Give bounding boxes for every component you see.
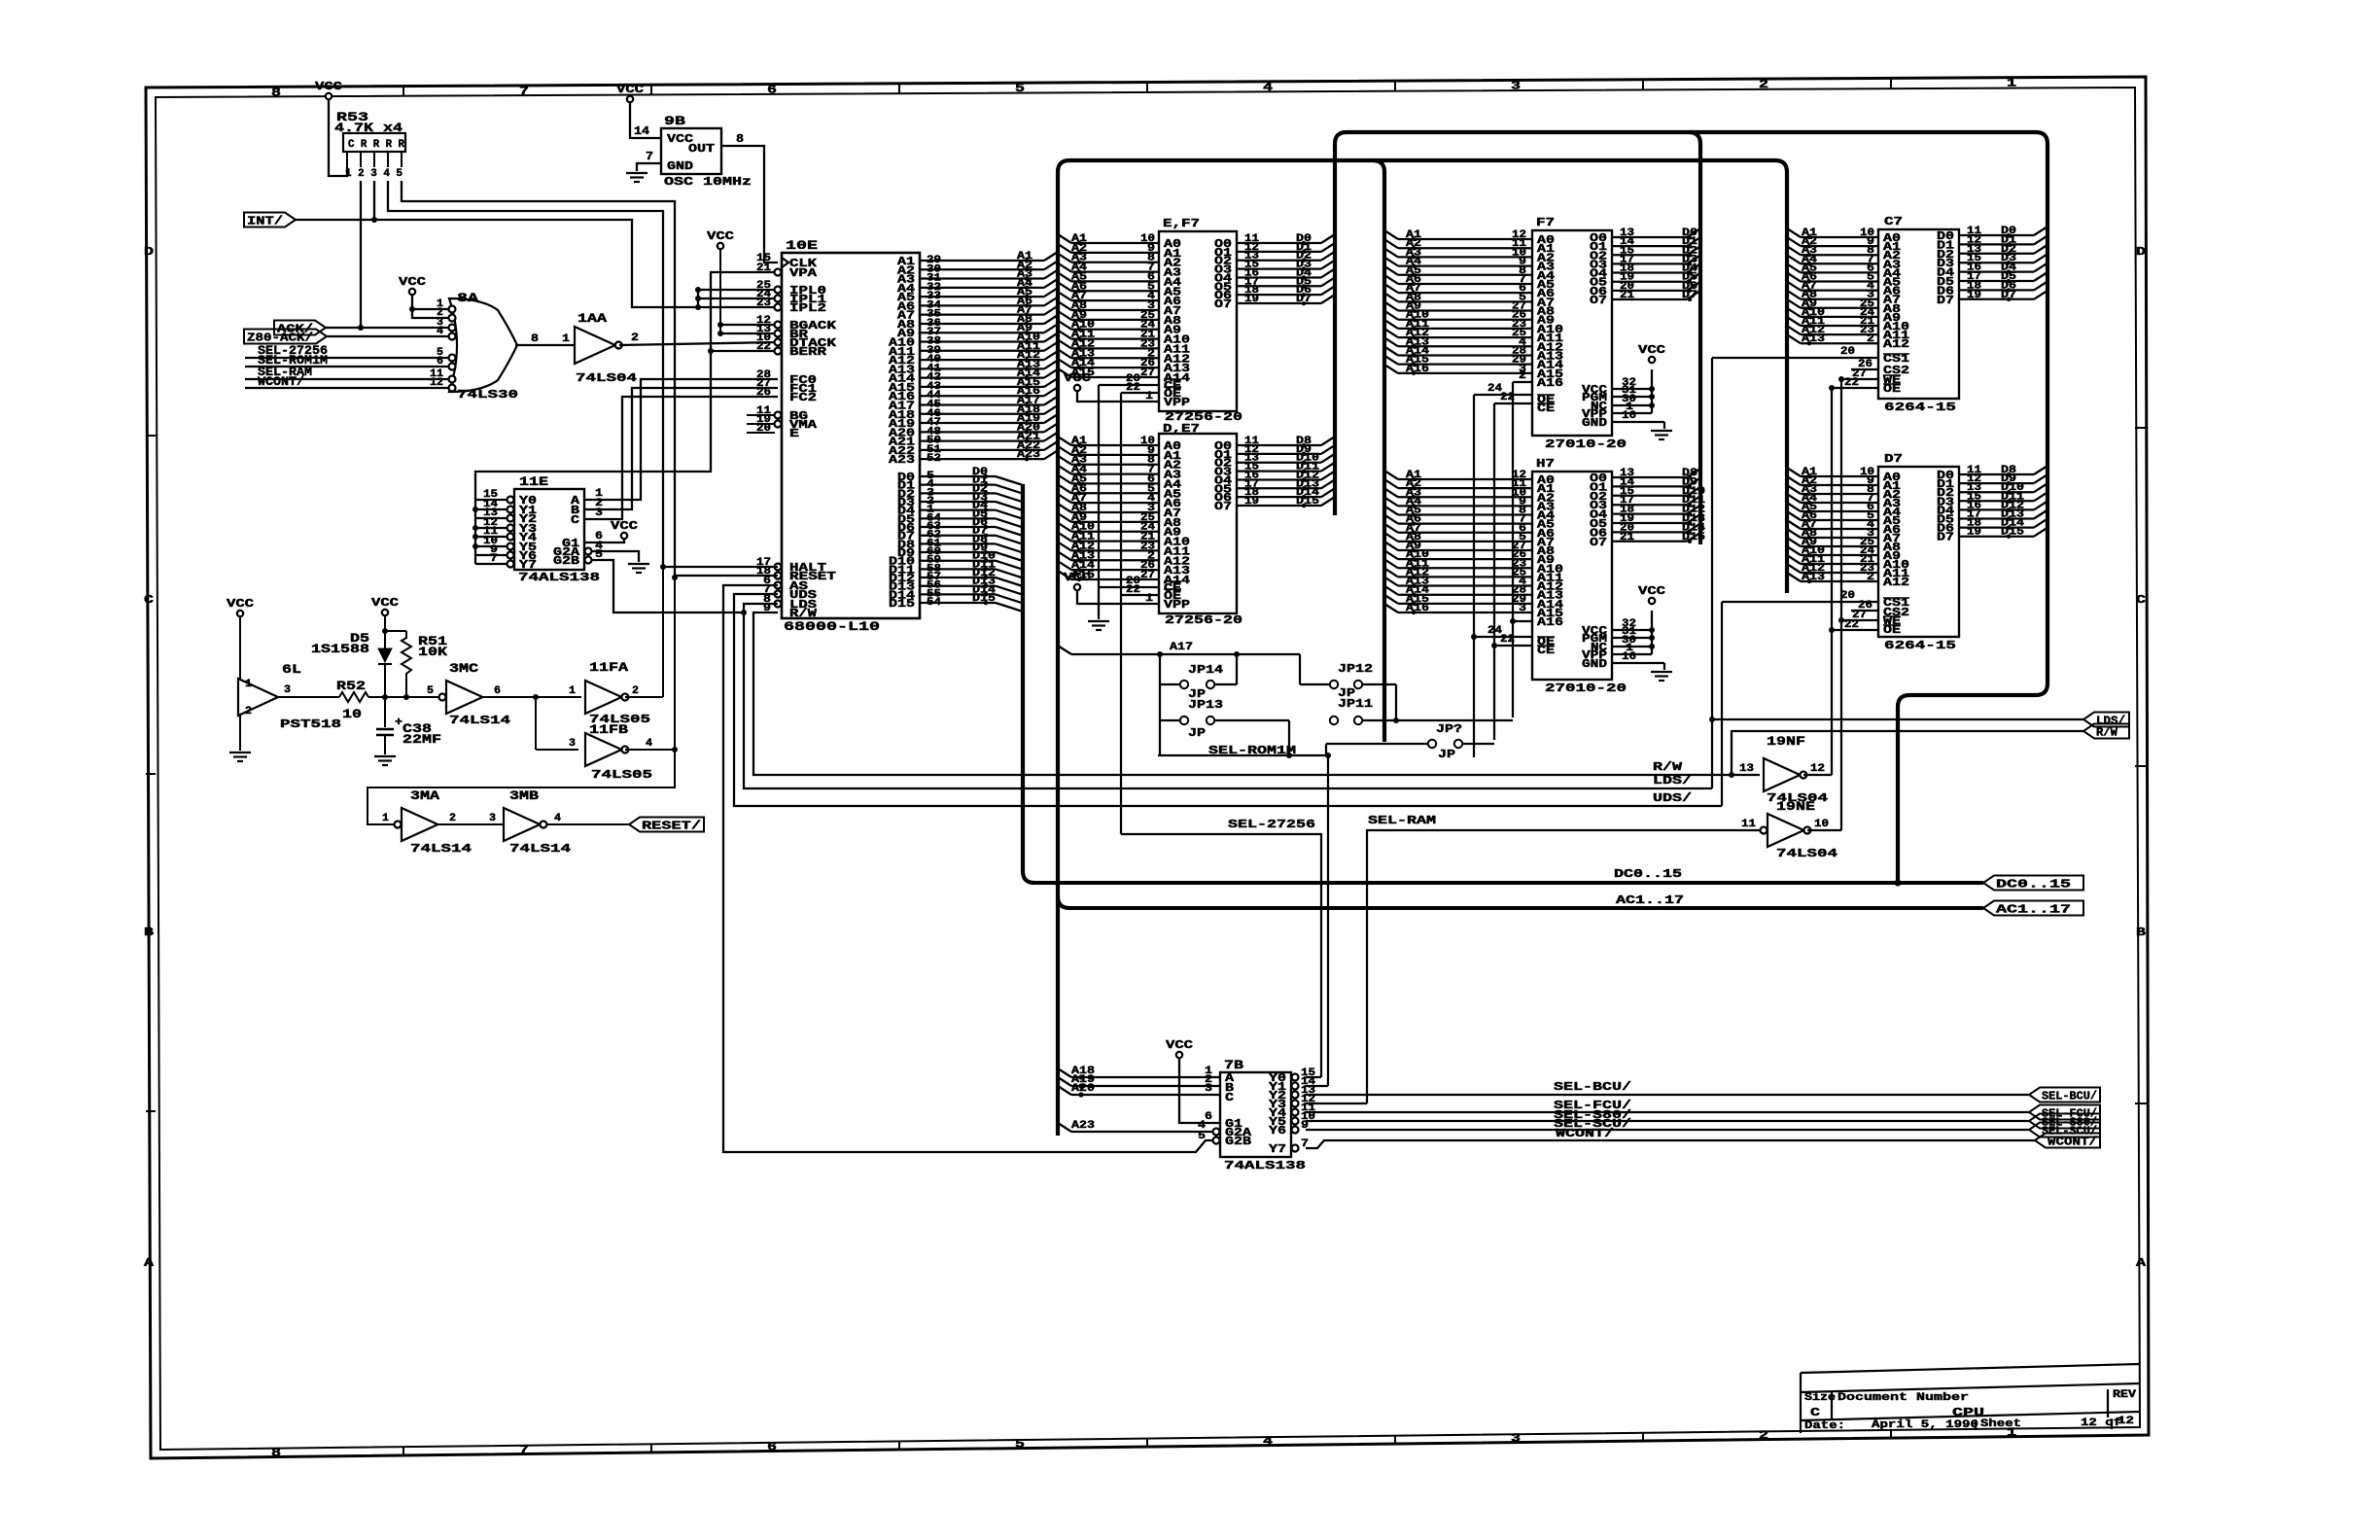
svg-text:12: 12 (1810, 763, 1825, 775)
wire 8A out to 1AA in (515, 344, 575, 346)
data bus vertical column1 (1335, 132, 1347, 515)
svg-text:1AA: 1AA (577, 311, 607, 326)
net flag R/W right (1732, 730, 2083, 732)
address bus vertical column2 (1373, 160, 1384, 742)
CE ground rail for 27256 pair (1098, 385, 1100, 619)
OE rail to SEL-27256 line (1120, 393, 1122, 834)
svg-text:A16: A16 (1406, 603, 1429, 614)
svg-text:C: C (1810, 1406, 1820, 1419)
ground at 6L (229, 752, 251, 753)
wire 3MA to 3MB (437, 823, 504, 825)
ground below D,E7 (1088, 620, 1109, 622)
svg-text:8: 8 (736, 132, 744, 146)
H7 power rail (1612, 629, 1652, 631)
C7 CS2 stub (1851, 368, 1878, 370)
wire HALT to 11FA output (663, 566, 778, 568)
svg-text:CPU: CPU (1952, 1406, 1984, 1419)
svg-text:WCONT/: WCONT/ (1556, 1127, 1614, 1140)
data bus top horizontal (1347, 130, 2036, 134)
svg-text:JP14: JP14 (1188, 663, 1223, 677)
svg-text:9B: 9B (664, 114, 685, 128)
wire VCC to osc pin 14 (630, 102, 661, 138)
svg-text:LDS/: LDS/ (1653, 774, 1692, 787)
data bus vertical RAM column (1898, 132, 2047, 883)
svg-text:R/W: R/W (789, 607, 818, 620)
D7 CS1 wire from UDS (1722, 601, 1878, 603)
wire D,E7 OE (1121, 594, 1159, 596)
svg-text:GND: GND (1582, 416, 1607, 430)
svg-text:74LS30: 74LS30 (457, 388, 518, 402)
svg-text:8: 8 (531, 333, 539, 345)
net flag RESET/ (629, 818, 704, 832)
7B Y6 to SEL-SCU/ flag (1306, 1129, 2029, 1131)
svg-text:1 2 3 4 5: 1 2 3 4 5 (345, 168, 402, 180)
wire VCC to D,E7 VPP (1077, 590, 1159, 604)
svg-text:74LS14: 74LS14 (509, 842, 571, 856)
wire R53 pin4 pullup to HALT (388, 181, 663, 567)
svg-text:VCC: VCC (707, 229, 734, 243)
svg-text:JP11: JP11 (1338, 697, 1373, 711)
svg-text:5: 5 (427, 685, 434, 697)
svg-text:2: 2 (1867, 572, 1874, 583)
svg-text:SEL-BCU/: SEL-BCU/ (2042, 1090, 2097, 1103)
wire R53 pin5 pullup to RESET (402, 181, 675, 577)
wire R/W down right (753, 612, 1760, 775)
bus flag AC1..17 (1983, 901, 2083, 916)
wire SEL-RAM line (1367, 830, 1764, 1103)
svg-text:A23: A23 (1017, 449, 1040, 461)
svg-text:2: 2 (631, 332, 639, 344)
svg-text:19: 19 (1244, 496, 1259, 507)
svg-text:10: 10 (342, 707, 362, 721)
svg-text:A: A (144, 1256, 155, 1270)
svg-text:23: 23 (756, 297, 771, 309)
svg-text:Size: Size (1804, 1392, 1836, 1404)
svg-text:19: 19 (1967, 527, 1981, 539)
svg-text:14: 14 (634, 124, 649, 138)
svg-text:VPP: VPP (1164, 598, 1190, 612)
svg-text:A16: A16 (1406, 364, 1429, 375)
svg-text:6264-15: 6264-15 (1884, 401, 1956, 414)
ground at F7 (1651, 430, 1672, 432)
svg-text:A20: A20 (1071, 1083, 1095, 1095)
svg-text:6: 6 (494, 685, 501, 697)
F7 A16 jumper wire (1513, 381, 1532, 383)
C7 OE wire (1832, 387, 1878, 389)
svg-text:D: D (144, 245, 154, 259)
DC0..15 bus line (1034, 881, 1983, 885)
svg-text:E: E (789, 427, 799, 440)
svg-text:2: 2 (449, 813, 456, 824)
wire 19NE out to RAM WE rail (1807, 829, 1841, 831)
svg-text:BERR: BERR (789, 345, 827, 359)
svg-text:20: 20 (1840, 346, 1855, 358)
D7 OE wire (1832, 629, 1878, 631)
svg-text:DC0..15: DC0..15 (1996, 878, 2071, 892)
ground at oscillator (626, 172, 647, 174)
svg-text:A23: A23 (889, 453, 915, 467)
svg-text:D7: D7 (1937, 531, 1954, 544)
svg-text:VCC: VCC (399, 275, 426, 289)
svg-text:A13: A13 (1802, 333, 1825, 345)
wire VCC to 8A pins 1 2 (412, 295, 448, 309)
svg-text:3: 3 (1511, 79, 1521, 92)
7B Y2 to SEL-BCU/ flag (1306, 1094, 2029, 1096)
svg-text:19NE: 19NE (1776, 799, 1815, 814)
svg-text:VPP: VPP (1164, 396, 1190, 409)
svg-text:A17: A17 (1170, 642, 1193, 653)
svg-text:D15: D15 (889, 597, 915, 611)
svg-text:21: 21 (1620, 290, 1634, 301)
svg-text:C: C (2136, 593, 2146, 607)
svg-text:PST518: PST518 (280, 717, 341, 731)
net flag LDS/ right (1712, 718, 2083, 720)
capacitor C38 22MF (384, 697, 386, 727)
svg-text:74ALS138: 74ALS138 (1224, 1159, 1306, 1172)
svg-text:R52: R52 (336, 679, 366, 693)
svg-text:3: 3 (595, 507, 603, 519)
D,E7 address input wires (1058, 437, 1071, 445)
F7 power rail (1612, 388, 1652, 390)
A16 rail to jumper (1512, 382, 1514, 717)
wire 11FA out up to HALT rail (625, 696, 663, 698)
svg-text:8: 8 (271, 86, 281, 99)
wire VPA BERR loop (711, 272, 778, 351)
svg-text:VCC: VCC (315, 80, 342, 93)
wire G2B to LDS rail (585, 557, 592, 564)
LDS vertical to CS1 (1711, 358, 1713, 788)
svg-text:27: 27 (1140, 367, 1155, 379)
ground at C38 (374, 755, 396, 757)
11E Y0 loop to VPA/BERR (475, 351, 711, 500)
address bus vertical (CPU side) (1058, 160, 1069, 1136)
svg-text:REV: REV (2113, 1389, 2136, 1401)
D7 data output wires (1959, 473, 2034, 475)
svg-text:22: 22 (756, 341, 771, 353)
svg-text:5: 5 (1015, 1438, 1025, 1452)
data bus vertical (CPU side) (1023, 484, 1034, 883)
svg-text:A13: A13 (1802, 572, 1825, 583)
address bus corner to RAM column (1775, 160, 1787, 593)
svg-text:4: 4 (646, 738, 652, 750)
wire FC1 to 11E B (584, 388, 778, 509)
svg-text:22: 22 (1126, 584, 1140, 596)
svg-text:O7: O7 (1214, 297, 1232, 311)
wire D5 to node (384, 664, 386, 697)
svg-text:4: 4 (1263, 1435, 1273, 1449)
svg-text:22MF: 22MF (402, 732, 441, 747)
svg-text:6: 6 (767, 84, 777, 97)
border frame (146, 77, 2149, 1458)
svg-text:7B: 7B (1224, 1058, 1243, 1072)
H7 data output wires (1612, 476, 1687, 478)
E,F7 address input wires (1058, 234, 1071, 243)
svg-text:Y7: Y7 (1269, 1142, 1286, 1156)
svg-text:74ALS138: 74ALS138 (518, 571, 600, 584)
svg-text:74LS04: 74LS04 (1776, 847, 1837, 860)
svg-text:3: 3 (569, 738, 576, 750)
svg-text:74LS05: 74LS05 (591, 768, 652, 782)
net flag Z80-ACK/ (244, 330, 327, 344)
wire D,E7 CE (1099, 586, 1159, 588)
svg-text:8: 8 (271, 1446, 281, 1459)
AC1..17 bus line (1069, 906, 1983, 910)
svg-text:Y7: Y7 (519, 558, 537, 572)
svg-text:1: 1 (245, 679, 252, 690)
H7 CE stub (1494, 645, 1532, 647)
svg-text:A12: A12 (1883, 576, 1909, 589)
wire 11FB node down to 3MA (367, 750, 675, 824)
OE rail F7-H7 (1473, 395, 1475, 757)
svg-text:74LS14: 74LS14 (410, 842, 472, 856)
svg-text:19: 19 (1244, 294, 1259, 305)
svg-text:3: 3 (489, 813, 496, 824)
net flag INT/ (244, 213, 296, 227)
svg-text:22: 22 (1126, 382, 1140, 394)
wire 6L out to R52 (278, 696, 339, 698)
svg-text:VCC: VCC (1064, 571, 1091, 584)
svg-text:22: 22 (1844, 377, 1859, 389)
H7 OE stub (1474, 636, 1532, 638)
svg-text:7: 7 (646, 150, 653, 163)
svg-text:1: 1 (569, 685, 576, 697)
C7 data output wires (1959, 234, 2034, 236)
wire VCC to BR (720, 332, 778, 334)
svg-text:AC1..17: AC1..17 (1996, 903, 2071, 917)
svg-text:2: 2 (1867, 333, 1874, 345)
F7 CE stub (1494, 402, 1532, 404)
svg-text:20: 20 (1840, 590, 1855, 602)
wire UDS down right (734, 594, 1722, 806)
wire R52 to node (368, 696, 439, 698)
wire LDS down right (744, 604, 1712, 788)
wire VCC to 7B G1 (1179, 1058, 1220, 1123)
svg-text:C: C (144, 593, 154, 607)
svg-text:SEL-27256: SEL-27256 (1228, 818, 1315, 831)
svg-text:A16: A16 (1537, 615, 1563, 629)
wire 1AA out to DTACK (619, 342, 778, 345)
svg-text:6264-15: 6264-15 (1884, 639, 1956, 652)
svg-text:VCC: VCC (1064, 371, 1091, 385)
svg-text:7: 7 (519, 1444, 529, 1457)
svg-text:JP: JP (1438, 748, 1455, 761)
svg-text:1: 1 (382, 813, 389, 824)
svg-text:27: 27 (1140, 570, 1155, 581)
D7 address input wires (1787, 468, 1801, 476)
svg-text:OSC 10MHz: OSC 10MHz (664, 175, 752, 189)
svg-text:19NF: 19NF (1767, 734, 1805, 749)
svg-text:UDS/: UDS/ (1653, 791, 1692, 805)
svg-text:D15: D15 (1296, 496, 1319, 507)
svg-text:JP13: JP13 (1188, 698, 1223, 712)
bus flag DC0..15 (1983, 876, 2083, 891)
7B Y3 to SEL-RAM rail (1306, 1102, 1367, 1104)
wire VCC to BGACK (720, 324, 778, 326)
E,F7 data output wires (1237, 242, 1321, 244)
7B Y0 to SEL-27256 rail (1306, 1076, 1321, 1078)
svg-text:5: 5 (1198, 1131, 1206, 1142)
wire R/W line to 19NF (1729, 772, 1734, 778)
svg-text:10E: 10E (786, 238, 818, 253)
svg-text:68000-L10: 68000-L10 (784, 619, 880, 634)
wire FC0 to 11E A (584, 379, 778, 500)
svg-text:3: 3 (284, 684, 291, 696)
wire C38 to ground (384, 735, 386, 754)
svg-text:Y6: Y6 (1269, 1124, 1286, 1137)
svg-text:SEL-BCU/: SEL-BCU/ (1554, 1080, 1631, 1094)
H7 A16 jumper wire (1513, 620, 1532, 622)
F7 OE stub (1474, 394, 1532, 396)
svg-text:1S1588: 1S1588 (311, 642, 369, 656)
svg-text:D: D (2136, 245, 2146, 259)
C7 WE wire (1841, 378, 1878, 380)
title block (1801, 1364, 2140, 1373)
svg-text:6: 6 (1205, 1111, 1212, 1123)
svg-text:27256-20: 27256-20 (1165, 613, 1242, 627)
svg-text:VCC: VCC (611, 519, 638, 533)
F7 address input wires (1384, 230, 1398, 239)
ground at 11E (628, 563, 649, 565)
wire FC2 to 11E C (584, 397, 778, 519)
svg-text:27010-20: 27010-20 (1545, 437, 1627, 451)
svg-text:2: 2 (1519, 370, 1526, 382)
svg-text:11E: 11E (519, 474, 548, 489)
11E Y rail (474, 500, 476, 564)
svg-text:VCC: VCC (1638, 343, 1665, 357)
svg-text:3MC: 3MC (449, 661, 478, 676)
svg-text:1: 1 (562, 333, 570, 345)
svg-text:G2B: G2B (553, 554, 579, 568)
svg-text:E,F7: E,F7 (1163, 217, 1200, 230)
7B input A20 (1058, 1086, 1071, 1095)
RAM OE rail from 19NF (1831, 388, 1833, 775)
wire VCC to E,F7 VPP (1077, 391, 1159, 402)
svg-text:7: 7 (519, 85, 529, 98)
svg-text:11FB: 11FB (589, 722, 628, 737)
svg-text:VCC: VCC (616, 83, 644, 96)
svg-text:F7: F7 (1536, 216, 1555, 229)
svg-text:GND: GND (1582, 657, 1607, 671)
CE rail F7-H7 to jumper (1493, 403, 1495, 740)
svg-text:B: B (144, 926, 154, 939)
7B Y4 to SEL-FCU/ flag (1306, 1111, 2029, 1113)
svg-text:27010-20: 27010-20 (1545, 682, 1627, 695)
svg-text:3: 3 (1511, 1432, 1521, 1446)
svg-text:WCONT/: WCONT/ (258, 374, 304, 389)
svg-text:AC1..17: AC1..17 (1616, 893, 1684, 907)
7B input A23 (1058, 1123, 1071, 1132)
wire E,F7 CE to ground rail (1099, 384, 1159, 386)
wire 6L pin2 to ground (239, 715, 241, 751)
wire osc pin 7 to ground (637, 163, 661, 171)
svg-text:6: 6 (767, 1441, 777, 1454)
svg-text:21: 21 (756, 262, 771, 274)
7B Y5 to SEL-S80/ flag (1306, 1120, 2029, 1122)
F7 data output wires (1612, 236, 1687, 238)
wire G2A to ground (585, 548, 592, 555)
wire 19NF out to RAM OE rail (1803, 774, 1832, 776)
svg-text:O7: O7 (1214, 500, 1232, 513)
wire VCC down to D5/R51 (384, 615, 386, 648)
svg-text:2: 2 (1759, 78, 1768, 91)
svg-text:C: C (1225, 1091, 1234, 1104)
wire IPL0 IPL1 tie (698, 289, 778, 291)
wire osc OUT pin8 to CPU CLK (721, 146, 778, 262)
svg-text:A23: A23 (1071, 1120, 1095, 1132)
wire vertical JP14 side (1159, 654, 1161, 755)
svg-text:12: 12 (2117, 1416, 2134, 1427)
svg-text:RESET/: RESET/ (642, 820, 701, 833)
svg-text:4: 4 (1263, 81, 1273, 94)
svg-text:R/W: R/W (2096, 726, 2118, 740)
wire RESET to 11FB output (675, 575, 778, 577)
7B input A19 (1058, 1077, 1071, 1086)
svg-text:VPA: VPA (789, 266, 818, 280)
svg-text:B: B (2136, 926, 2146, 939)
svg-text:D15: D15 (2001, 527, 2024, 539)
address bus top horizontal (1069, 158, 1775, 162)
svg-text:74LS14: 74LS14 (449, 714, 510, 727)
svg-text:D7: D7 (1937, 294, 1954, 307)
D7 CS2 stub (1851, 610, 1878, 612)
svg-text:VCC: VCC (1638, 584, 1665, 598)
svg-text:A: A (2136, 1256, 2147, 1270)
svg-text:Date:: Date: (1804, 1420, 1845, 1432)
7B Y7 to WCONT/ flag (1306, 1140, 2035, 1148)
svg-text:4: 4 (554, 813, 561, 824)
svg-text:SEL-RAM: SEL-RAM (1368, 814, 1436, 827)
C7 CS1 wire from LDS (1712, 357, 1878, 359)
data bus vertical column2 (1689, 132, 1700, 544)
svg-text:3MA: 3MA (410, 788, 439, 803)
svg-text:1: 1 (1145, 593, 1153, 605)
D7 WE wire (1841, 619, 1878, 621)
svg-text:21: 21 (1620, 532, 1634, 543)
svg-text:April 5, 1990: April 5, 1990 (1872, 1419, 1978, 1431)
net flag ACK/ (274, 321, 326, 335)
svg-text:2: 2 (245, 706, 252, 717)
wire R53 pin2 pullup to ACK line (360, 181, 362, 328)
C7 address input wires (1787, 228, 1801, 237)
wire ACK/ to 8A (326, 327, 448, 329)
UDS vertical to CS1 (1721, 602, 1723, 806)
svg-text:DC0..15: DC0..15 (1614, 867, 1682, 881)
wire 3MB to RESET/ flag (546, 823, 629, 825)
svg-text:IPL2: IPL2 (789, 301, 826, 315)
svg-text:2: 2 (632, 685, 639, 697)
svg-text:INT/: INT/ (247, 215, 283, 228)
svg-text:19: 19 (1967, 290, 1981, 301)
svg-text:1: 1 (2007, 77, 2016, 90)
svg-text:FC2: FC2 (789, 391, 817, 404)
wire Z80-ACK/ to 8A (327, 335, 448, 337)
svg-text:16: 16 (1622, 651, 1636, 663)
H7 address input wires (1384, 471, 1398, 479)
svg-text:VCC: VCC (371, 596, 399, 610)
svg-text:10: 10 (1814, 819, 1829, 830)
wire INT/ to IPL2 (296, 220, 778, 307)
svg-text:VCC: VCC (227, 597, 254, 611)
svg-text:12 of: 12 of (2081, 1417, 2121, 1429)
svg-text:D15: D15 (1682, 532, 1705, 543)
svg-text:G2B: G2B (1225, 1135, 1251, 1148)
svg-text:+: + (395, 716, 402, 729)
svg-text:C: C (571, 513, 579, 527)
svg-text:13: 13 (1739, 763, 1754, 775)
wire AS down to 7B G2B (723, 585, 1212, 1152)
wire E,F7 OE to SEL-27256 rail (1121, 392, 1159, 394)
svg-text:3MB: 3MB (509, 788, 539, 803)
